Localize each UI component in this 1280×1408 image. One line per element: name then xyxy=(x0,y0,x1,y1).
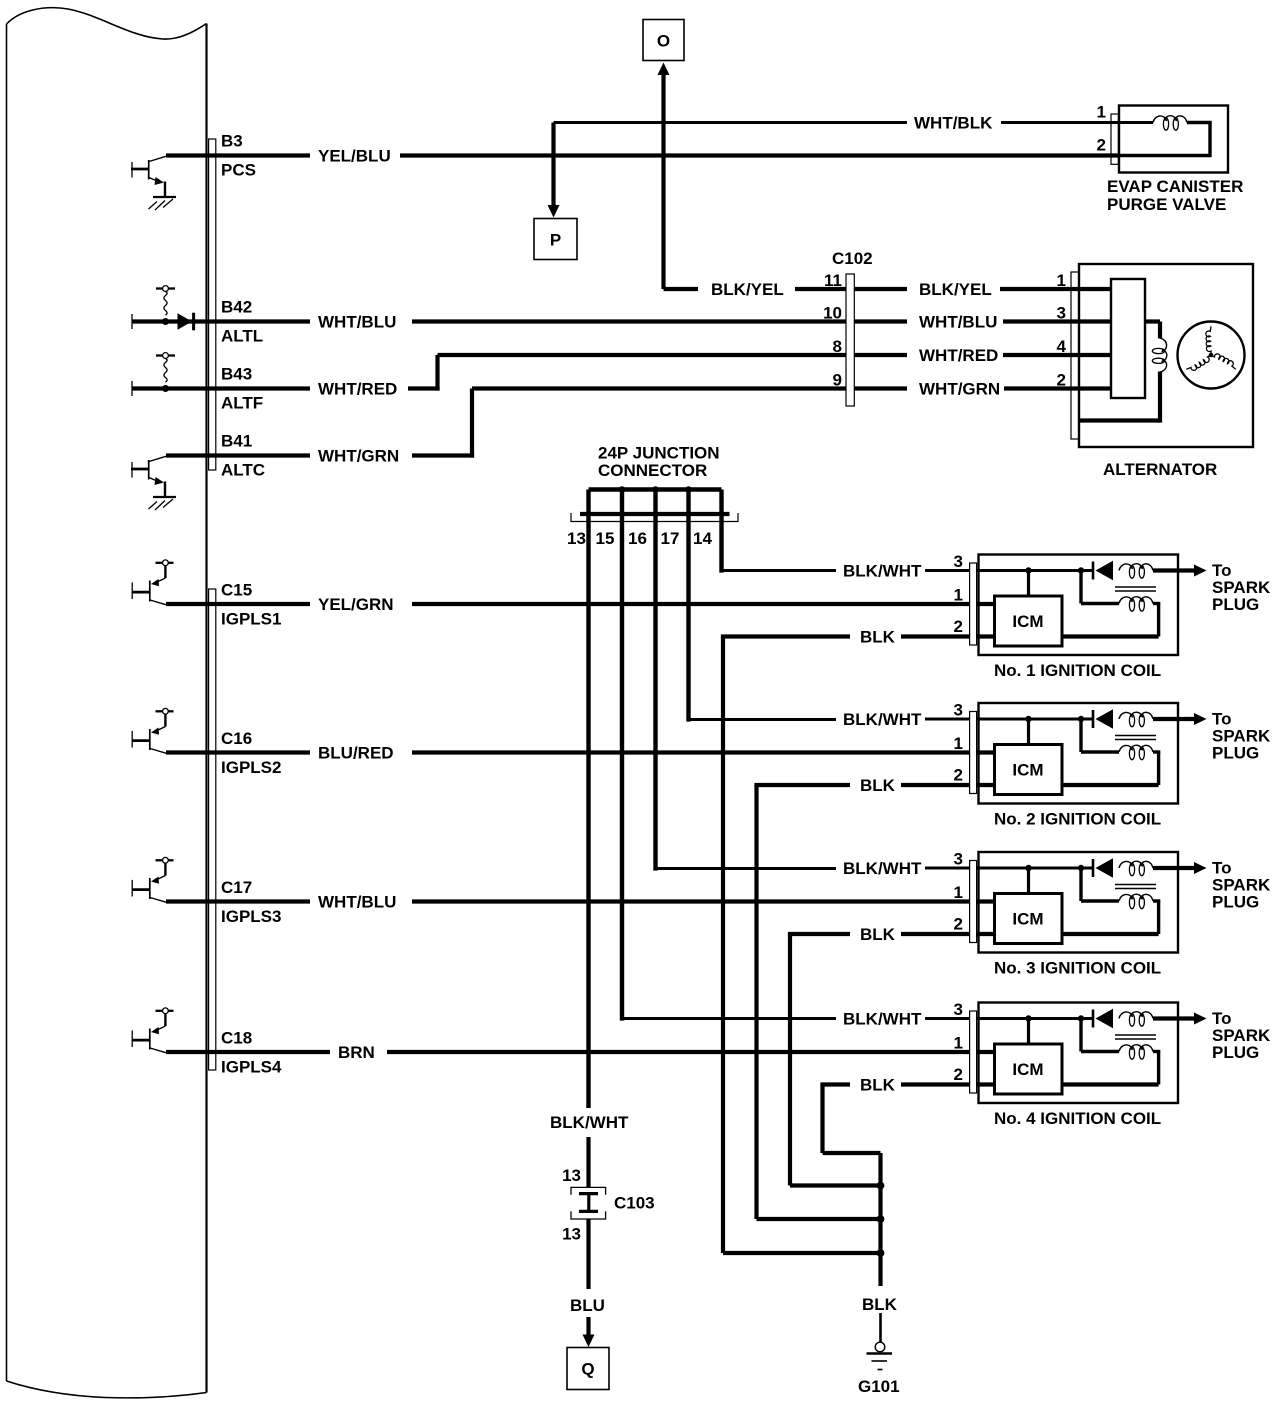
core lines coil 4 xyxy=(1115,1035,1156,1039)
svg-text:2: 2 xyxy=(954,617,963,636)
ICM feed stub coil 2 xyxy=(1027,719,1030,745)
svg-text:C17: C17 xyxy=(221,878,252,897)
svg-text:1: 1 xyxy=(954,1034,963,1053)
svg-text:BLK/WHT: BLK/WHT xyxy=(550,1113,629,1132)
svg-text:PLUG: PLUG xyxy=(1212,893,1259,912)
secondary circuit wiring coil 1 xyxy=(1062,571,1160,637)
secondary winding coil 4 xyxy=(1119,1045,1133,1052)
transistor Q4 (IGPLS2 output driver, PNP) xyxy=(132,708,174,753)
primary winding coil 3 xyxy=(1119,861,1133,868)
diode D2 in coil 1 xyxy=(1093,561,1113,580)
transistor Q3 (IGPLS1 output driver, PNP) xyxy=(132,560,174,605)
svg-text:BLK: BLK xyxy=(862,1295,898,1314)
ICM feed stub coil 3 xyxy=(1027,868,1030,894)
transistor Q2 (ALTC driver, NPN) xyxy=(131,456,166,497)
wire BLK/WHT segments at coil 3 pin 3 xyxy=(925,867,1092,870)
svg-text:C103: C103 xyxy=(614,1194,655,1213)
svg-text:PCS: PCS xyxy=(221,161,256,180)
EVAP canister purge valve box xyxy=(1119,106,1228,173)
svg-text:B43: B43 xyxy=(221,365,252,384)
wire junction pin 14 to coil1 BLK/WHT xyxy=(722,490,837,573)
voltage regulator block xyxy=(1111,279,1145,398)
wire pin2 (BLK) into ICM coil 2 xyxy=(977,783,995,787)
wire WHT/BLU (C17 to ignition coil) xyxy=(166,899,970,903)
ICM feed stub coil 4 xyxy=(1027,1019,1030,1045)
svg-text:BLK: BLK xyxy=(860,776,896,795)
wire pin1 into ICM coil 2 xyxy=(977,750,995,754)
svg-text:WHT/GRN: WHT/GRN xyxy=(919,380,1000,399)
diode D4 in coil 3 xyxy=(1093,858,1113,877)
svg-text:PLUG: PLUG xyxy=(1212,744,1259,763)
svg-text:16: 16 xyxy=(628,529,647,548)
wire pin1 into ICM coil 1 xyxy=(977,602,995,606)
label EVAP CANISTER PURGE VALVE xyxy=(1107,177,1243,214)
svg-text:Q: Q xyxy=(581,1360,594,1379)
svg-text:EVAP CANISTER: EVAP CANISTER xyxy=(1107,177,1243,196)
svg-text:ICM: ICM xyxy=(1012,612,1043,631)
svg-text:WHT/BLK: WHT/BLK xyxy=(914,114,993,133)
ground (Q2 emitter) xyxy=(149,497,177,510)
diode D1 xyxy=(178,313,194,331)
ignition coil No.3 outer box xyxy=(979,852,1179,953)
svg-text:WHT/BLU: WHT/BLU xyxy=(318,893,396,912)
svg-text:BLK/WHT: BLK/WHT xyxy=(843,562,922,581)
svg-text:15: 15 xyxy=(596,529,615,548)
ignition coil No.1 outer box xyxy=(979,555,1179,656)
ICM module box coil 1 xyxy=(995,596,1063,646)
svg-text:ICM: ICM xyxy=(1012,910,1043,929)
svg-text:11: 11 xyxy=(824,271,842,290)
wire pin2 (BLK) into ICM coil 3 xyxy=(977,932,995,936)
svg-text:No. 1 IGNITION COIL: No. 1 IGNITION COIL xyxy=(994,661,1161,680)
svg-text:ICM: ICM xyxy=(1012,1060,1043,1079)
svg-text:1: 1 xyxy=(1097,103,1106,122)
svg-text:WHT/RED: WHT/RED xyxy=(318,380,397,399)
field winding circuit xyxy=(1079,322,1160,423)
svg-text:ICM: ICM xyxy=(1012,761,1043,780)
svg-text:3: 3 xyxy=(954,701,963,720)
svg-text:No. 4 IGNITION COIL: No. 4 IGNITION COIL xyxy=(994,1109,1161,1128)
ICM module box coil 4 xyxy=(995,1044,1063,1094)
svg-text:3: 3 xyxy=(954,552,963,571)
resistor R2 (ALTF sense) xyxy=(156,353,175,392)
svg-text:C102: C102 xyxy=(832,249,873,268)
core lines coil 1 xyxy=(1115,587,1156,591)
ignition coil unit No.1: connector strip xyxy=(970,563,977,645)
svg-text:BLK/YEL: BLK/YEL xyxy=(919,280,992,299)
svg-text:17: 17 xyxy=(661,529,680,548)
ignition coil unit No.4: connector strip xyxy=(970,1011,977,1093)
ignition coil No.2 outer box xyxy=(979,703,1179,804)
wire BLK/WHT segments at coil 4 pin 3 xyxy=(925,1017,1092,1020)
svg-text:C16: C16 xyxy=(221,729,252,748)
svg-text:ALTC: ALTC xyxy=(221,461,265,480)
svg-text:BLK/WHT: BLK/WHT xyxy=(843,710,922,729)
wire BLU/RED (C16 to ignition coil) xyxy=(166,750,970,754)
wire BLK/WHT segments at coil 1 pin 3 xyxy=(925,569,1092,572)
svg-text:WHT/RED: WHT/RED xyxy=(919,346,998,365)
wire pin2 (BLK) into ICM coil 4 xyxy=(977,1082,995,1086)
svg-text:G101: G101 xyxy=(858,1377,900,1396)
wire BRN (C18 to ignition coil) xyxy=(166,1050,970,1054)
ground (Q1 emitter) xyxy=(149,197,177,210)
svg-text:BLK/WHT: BLK/WHT xyxy=(843,859,922,878)
wire YEL/BLU (B3 to EVAP purge valve pin 2) xyxy=(166,153,1119,157)
secondary winding coil 1 xyxy=(1119,597,1133,604)
svg-text:B3: B3 xyxy=(221,132,243,151)
svg-text:C15: C15 xyxy=(221,581,252,600)
resistor R1 (ALTL sense) xyxy=(156,286,175,325)
primary winding coil 2 xyxy=(1119,712,1133,719)
ignition coil No.4 outer box xyxy=(979,1003,1179,1104)
svg-text:ALTL: ALTL xyxy=(221,327,263,346)
svg-text:9: 9 xyxy=(833,371,842,390)
ignition coil No.4 pin numbers xyxy=(954,1000,963,1084)
svg-text:2: 2 xyxy=(1097,136,1106,155)
svg-text:3: 3 xyxy=(954,850,963,869)
node dots on coil 4 primary feed xyxy=(1025,1015,1031,1021)
secondary winding coil 2 xyxy=(1119,745,1133,752)
wire YEL/GRN (C15 to ignition coil) xyxy=(166,602,970,606)
wire junction pin 15 to coil4 BLK/WHT xyxy=(622,490,836,1021)
secondary circuit wiring coil 2 xyxy=(1062,719,1160,785)
ground bus vertical to G101 xyxy=(878,1153,882,1342)
24P junction connector xyxy=(571,490,738,522)
wire BLK coil 4 to ground bus xyxy=(820,1085,969,1154)
core lines coil 2 xyxy=(1115,736,1156,740)
ECM/PCM module outline (torn edges) xyxy=(7,8,207,1398)
svg-text:B41: B41 xyxy=(221,432,252,451)
svg-text:IGPLS2: IGPLS2 xyxy=(221,758,281,777)
svg-text:IGPLS1: IGPLS1 xyxy=(221,610,281,629)
label To SPARK PLUG coil 1 xyxy=(1212,561,1271,614)
svg-text:13: 13 xyxy=(562,1166,581,1185)
svg-text:PURGE VALVE: PURGE VALVE xyxy=(1107,195,1226,214)
wire BLK/YEL with arrow up to connector O xyxy=(658,63,847,290)
svg-text:ALTF: ALTF xyxy=(221,394,263,413)
node dots on coil 2 primary feed xyxy=(1025,716,1031,722)
wire WHT/BLU (C102-10 to alternator 3) xyxy=(854,319,1111,323)
svg-text:WHT/BLU: WHT/BLU xyxy=(919,313,997,332)
svg-text:10: 10 xyxy=(823,304,842,323)
svg-text:BLK/YEL: BLK/YEL xyxy=(711,280,784,299)
svg-text:1: 1 xyxy=(954,586,963,605)
connector C103 xyxy=(571,1187,606,1219)
wire BLK coil 3 to ground bus xyxy=(788,934,970,1186)
junction dots on ground bus xyxy=(877,1182,885,1257)
wire BLK coil 2 to ground bus xyxy=(754,785,969,1219)
pin numbers C102 xyxy=(823,271,842,390)
alternator connector strip xyxy=(1071,272,1079,439)
svg-text:PLUG: PLUG xyxy=(1212,1043,1259,1062)
svg-text:IGPLS3: IGPLS3 xyxy=(221,907,281,926)
secondary circuit wiring coil 4 xyxy=(1062,1019,1160,1085)
EVAP canister purge valve connector strip xyxy=(1111,114,1118,164)
svg-text:BRN: BRN xyxy=(338,1043,375,1062)
purge valve internal wiring xyxy=(1118,123,1211,158)
svg-text:2: 2 xyxy=(954,915,963,934)
junction node dots on bus xyxy=(619,486,692,493)
node dots on coil 3 primary feed xyxy=(1025,865,1031,871)
svg-text:No. 3 IGNITION COIL: No. 3 IGNITION COIL xyxy=(994,959,1161,978)
core lines coil 3 xyxy=(1115,885,1156,889)
ECM connector strip (B pins) xyxy=(209,139,216,470)
wire pin2 (BLK) into ICM coil 1 xyxy=(977,634,995,638)
svg-text:BLK: BLK xyxy=(860,925,896,944)
svg-text:1: 1 xyxy=(954,734,963,753)
svg-text:O: O xyxy=(657,32,670,51)
wire to connector P (arrow down) xyxy=(548,123,560,218)
svg-text:3: 3 xyxy=(1057,304,1066,323)
ignition coil unit No.3: connector strip xyxy=(970,861,977,943)
svg-text:BLK/WHT: BLK/WHT xyxy=(843,1010,922,1029)
connector box Q xyxy=(567,1348,609,1390)
ignition coil No.3 pin numbers xyxy=(954,850,963,934)
purge valve solenoid coil L2 xyxy=(1153,116,1167,123)
svg-text:WHT/GRN: WHT/GRN xyxy=(318,447,399,466)
wire junction pin 13 (BLK/WHT down to C103) xyxy=(586,490,590,1188)
svg-text:YEL/BLU: YEL/BLU xyxy=(318,147,391,166)
svg-text:C18: C18 xyxy=(221,1029,252,1048)
ICM module box coil 2 xyxy=(995,745,1063,795)
primary winding coil 1 xyxy=(1119,564,1133,571)
svg-text:B42: B42 xyxy=(221,298,252,317)
svg-text:2: 2 xyxy=(954,1065,963,1084)
spark plug output wire + arrow coil 2 xyxy=(1153,713,1207,725)
junction pin numbers xyxy=(567,529,712,548)
svg-text:24P JUNCTION: 24P JUNCTION xyxy=(598,444,720,463)
purge valve pin numbers xyxy=(1097,103,1106,155)
svg-text:8: 8 xyxy=(833,337,842,356)
alternator outer box xyxy=(1079,264,1253,447)
ignition coil No.1 pin numbers xyxy=(954,552,963,636)
primary winding coil 4 xyxy=(1119,1012,1133,1019)
svg-text:2: 2 xyxy=(954,766,963,785)
alternator pin numbers xyxy=(1057,271,1067,390)
svg-text:P: P xyxy=(550,231,561,250)
stator windings (3-phase) xyxy=(1178,322,1245,389)
wire WHT/GRN (C102-9 to alternator 2) xyxy=(854,386,1111,390)
svg-text:2: 2 xyxy=(1057,371,1066,390)
label To SPARK PLUG coil 3 xyxy=(1212,859,1271,912)
wire junction pin 16 to coil3 BLK/WHT xyxy=(656,490,837,871)
svg-text:BLU/RED: BLU/RED xyxy=(318,744,394,763)
ground G101 symbol xyxy=(867,1342,893,1369)
svg-text:BLK: BLK xyxy=(860,1076,896,1095)
svg-text:3: 3 xyxy=(954,1000,963,1019)
ECM connector strip (C pins) xyxy=(209,589,216,1070)
ICM feed stub coil 1 xyxy=(1027,571,1030,597)
wire BLK/WHT segments at coil 2 pin 3 xyxy=(925,718,1092,721)
svg-text:14: 14 xyxy=(693,529,712,548)
wire BLK/YEL (C102-11 to alternator 1) xyxy=(854,287,1111,291)
secondary winding coil 3 xyxy=(1119,894,1133,901)
svg-text:BLU: BLU xyxy=(570,1296,605,1315)
svg-text:WHT/BLU: WHT/BLU xyxy=(318,313,396,332)
svg-text:4: 4 xyxy=(1057,337,1067,356)
wire BLU (C103 to connector Q) xyxy=(583,1219,595,1347)
wire pin1 into ICM coil 4 xyxy=(977,1050,995,1054)
svg-text:YEL/GRN: YEL/GRN xyxy=(318,595,394,614)
ICM module box coil 3 xyxy=(995,894,1063,944)
wire WHT/GRN (B41 to C102 pin 9) xyxy=(166,389,846,458)
ignition coil No.2 pin numbers xyxy=(954,701,963,785)
transistor Q6 (IGPLS4 output driver, PNP) xyxy=(132,1008,174,1053)
connector box P xyxy=(534,219,577,260)
svg-text:13: 13 xyxy=(567,529,586,548)
connector box O xyxy=(643,20,684,61)
wire WHT/RED (C102-8 to alternator 4) xyxy=(854,353,1111,357)
connector C102 xyxy=(846,274,854,406)
label To SPARK PLUG coil 2 xyxy=(1212,710,1271,763)
ignition coil unit No.2: connector strip xyxy=(970,712,977,794)
svg-text:13: 13 xyxy=(562,1225,581,1244)
spark plug output wire + arrow coil 3 xyxy=(1153,862,1207,874)
secondary circuit wiring coil 3 xyxy=(1062,868,1160,934)
svg-text:CONNECTOR: CONNECTOR xyxy=(598,461,707,480)
wire junction pin 17 to coil2 BLK/WHT xyxy=(689,490,837,722)
transistor Q1 (PCS output driver, NPN) xyxy=(131,156,166,197)
field coil L1 xyxy=(1152,338,1167,372)
svg-text:No. 2 IGNITION COIL: No. 2 IGNITION COIL xyxy=(994,810,1161,829)
spark plug output wire + arrow coil 1 xyxy=(1153,565,1207,577)
transistor Q5 (IGPLS3 output driver, PNP) xyxy=(132,857,174,902)
svg-text:IGPLS4: IGPLS4 xyxy=(221,1058,282,1077)
svg-text:ALTERNATOR: ALTERNATOR xyxy=(1103,460,1217,479)
wire WHT/RED (B43 to C102 pin 8) xyxy=(132,355,846,396)
svg-text:BLK: BLK xyxy=(860,628,896,647)
diode D3 in coil 2 xyxy=(1093,709,1113,728)
svg-text:PLUG: PLUG xyxy=(1212,595,1259,614)
svg-text:1: 1 xyxy=(1057,271,1066,290)
wire WHT/BLK (purge valve pin 1) xyxy=(554,121,1120,124)
wire WHT/BLU (B42 to C102 pin 10) xyxy=(132,319,846,323)
svg-text:1: 1 xyxy=(954,883,963,902)
wire BLK coil 1 to ground bus xyxy=(721,637,970,1254)
node dots on coil 1 primary feed xyxy=(1025,567,1031,573)
wire pin1 into ICM coil 3 xyxy=(977,899,995,903)
spark plug output wire + arrow coil 4 xyxy=(1153,1013,1207,1025)
diode D5 in coil 4 xyxy=(1093,1009,1113,1028)
label To SPARK PLUG coil 4 xyxy=(1212,1009,1271,1062)
